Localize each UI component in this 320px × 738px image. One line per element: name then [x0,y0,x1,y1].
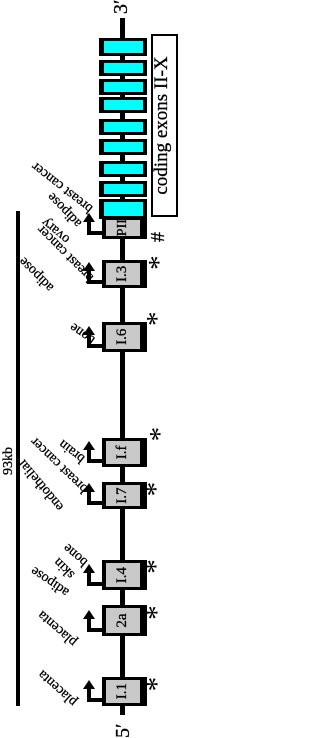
promoter I.1 [102,677,147,706]
node 3' label [110,0,133,14]
asterisk 2a [143,605,172,620]
promoter I.4 [102,560,147,589]
label bone (I.6) [67,319,97,346]
label placenta (2a) [36,607,80,648]
arrow I.3 (transcription start) [87,280,102,284]
asterisk I.f [146,427,175,442]
promoter 2a [102,605,147,635]
arrow I.f (transcription start) [87,459,102,463]
wire: 93kb span line [16,211,20,706]
node 5' label [112,724,135,738]
93kb label [1,447,17,475]
label endothelial (I.7) [17,456,68,513]
rotated gene-structure figure [0,0,182,735]
arrow 2a (transcription start) [87,628,102,632]
arrow PII (transcription start) [87,231,102,235]
promoter I.7 [102,482,147,508]
label ovary (PII) [40,215,73,246]
exon X [99,38,147,56]
label skin (I.4) [52,555,78,581]
exon VII [99,97,147,113]
exon II [99,200,147,220]
promoter PII [102,217,147,239]
label adipose (I.4) [29,563,72,599]
label adipose (PII) [45,190,85,230]
promoter I.f [102,438,147,467]
label breast cancer (PII) [29,158,96,214]
exon VI [99,119,147,135]
asterisk I.6 [143,312,172,327]
label breast cancer (I.7) [29,434,92,495]
arrow I.7 (transcription start) [87,501,102,505]
arrow I.6 (transcription start) [87,344,102,348]
hash mark PII [148,232,168,242]
label adipose (I.3) [17,254,57,294]
asterisk I.4 [142,559,171,574]
coding exons II-X label box [151,34,178,217]
exon III [99,181,147,197]
arrow I.4 (transcription start) [87,582,102,586]
exon VIII [99,79,147,95]
asterisk I.1 [143,677,172,692]
label brain (I.f) [57,437,88,466]
exon IV [99,162,147,178]
label placenta (I.1) [36,666,80,708]
exon IX [99,60,147,76]
wire: main 5p-3p gene line [120,18,125,715]
promoter I.6 [102,322,147,352]
asterisk I.7 [142,482,171,497]
label bone (I.4) [61,540,91,568]
asterisk I.3 [145,255,174,270]
arrow I.1 (transcription start) [87,698,102,702]
exon V [99,139,147,155]
promoter I.3 [102,260,147,289]
label breast cancer (I.3) [35,222,97,284]
